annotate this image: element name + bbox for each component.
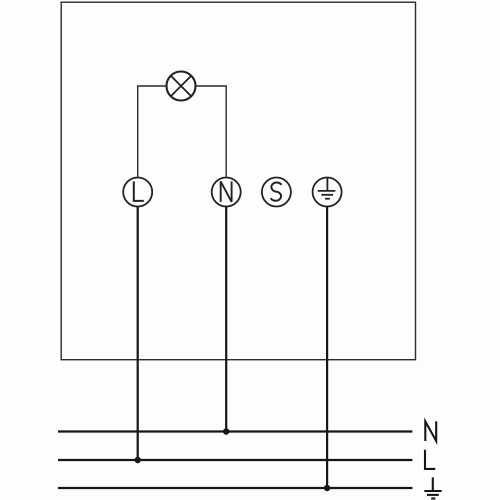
- wire lamp to terminal L: [138, 86, 167, 178]
- bus N: [58, 430, 412, 432]
- terminal PE with earth symbol: [313, 178, 342, 207]
- label L: [425, 450, 435, 469]
- enclosure box: [61, 2, 415, 360]
- terminal S: [262, 178, 291, 207]
- wire lamp to terminal N: [196, 86, 227, 178]
- junction node on L bus: [135, 457, 141, 463]
- wire terminal PE to PE bus: [326, 207, 328, 489]
- wire terminal N to N bus: [225, 207, 227, 432]
- junction node on N bus: [223, 428, 229, 434]
- label N: [425, 421, 436, 441]
- wire terminal L to L bus: [137, 207, 139, 461]
- lamp E1: [167, 72, 196, 101]
- junction node on PE bus: [324, 485, 330, 491]
- bus PE: [58, 487, 412, 489]
- earth symbol label: [424, 477, 441, 498]
- bus L: [58, 459, 412, 461]
- terminal L: [123, 178, 152, 207]
- terminal N: [212, 178, 241, 207]
